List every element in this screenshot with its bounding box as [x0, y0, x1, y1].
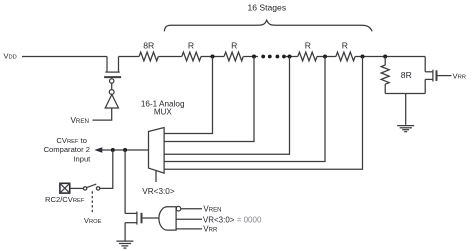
wire Q1 drain to 8R: [119, 56, 140, 58]
ground right: [397, 126, 414, 132]
node tap1: [211, 55, 215, 59]
svg-text:R: R: [342, 41, 348, 51]
wire mux input 5 from tap5: [164, 57, 362, 170]
wire mux input 4 from tap4: [164, 57, 325, 162]
dashed control line VROE: [91, 191, 93, 214]
node tap2: [252, 55, 256, 59]
resistor R2: [224, 52, 243, 61]
svg-text:RC2/CVREF: RC2/CVREF: [45, 195, 85, 204]
wire VDD to Q1 source: [22, 56, 107, 58]
resistor 8R ladder top: [139, 52, 158, 61]
inverter U2: [93, 90, 119, 121]
wire Q1 gate to inverter output: [111, 84, 113, 90]
svg-text:VROE: VROE: [84, 216, 102, 225]
mux 16-1 analog trapezoid: [149, 128, 165, 174]
label CVREF to Comparator 2 Input: [44, 136, 92, 163]
arrow CVREF output: [94, 147, 102, 152]
svg-text:R: R: [188, 41, 194, 51]
svg-text:CVREF to: CVREF to: [56, 136, 87, 145]
wire 8R to R1: [158, 56, 182, 58]
svg-text:VR<3:0> = 0000: VR<3:0> = 0000: [203, 216, 262, 225]
svg-text:Comparator 2: Comparator 2: [44, 145, 90, 154]
svg-text:8R: 8R: [143, 41, 154, 51]
wire R3 to R4: [317, 56, 336, 58]
node 8R branch: [383, 55, 387, 59]
transistor Q1 PMOS: [104, 57, 121, 84]
pin RC2/CVREF box: [60, 183, 70, 193]
brace 16 stages: [164, 20, 372, 31]
svg-text:VRR: VRR: [453, 71, 466, 80]
wire mux input 1 from tap1: [164, 57, 212, 134]
wire mux input 2 from tap2: [164, 57, 254, 142]
node tap3: [288, 55, 292, 59]
wire terminator to ground: [405, 94, 407, 125]
svg-text:MUX: MUX: [154, 107, 172, 116]
switch SW1: [83, 184, 99, 190]
node CVREF switch junction: [111, 148, 115, 152]
wire terminator bottom rail: [385, 93, 425, 95]
svg-text:VDD: VDD: [4, 51, 17, 60]
transistor Q2 pulldown: [125, 212, 159, 225]
resistor R1: [182, 52, 201, 61]
resistor R4: [336, 52, 355, 61]
svg-text:Input: Input: [73, 155, 91, 164]
node CVREF pulldown junction: [123, 148, 127, 152]
svg-text:VR<3:0>: VR<3:0>: [142, 187, 175, 196]
wire R4 to right corner: [355, 56, 425, 58]
svg-text:VREN: VREN: [203, 205, 221, 214]
wire AND input VRR: [176, 228, 202, 230]
wire corner down to Q3 drain: [424, 57, 426, 72]
transistor Q3 VRR switch: [425, 70, 451, 94]
svg-text:R: R: [305, 41, 311, 51]
svg-text:R: R: [231, 41, 237, 51]
wire mux output CVREF: [102, 149, 149, 151]
ground left: [116, 241, 133, 248]
wire Q2 source to ground: [124, 223, 126, 241]
node tap5: [361, 55, 365, 59]
node tap4: [323, 55, 327, 59]
wire mux input 3 from tap3: [164, 57, 289, 155]
resistor R3: [298, 52, 317, 61]
wire junction down to Q2 drain: [124, 150, 126, 213]
svg-text:8R: 8R: [401, 70, 412, 80]
wire R2 to tap2: [243, 56, 258, 58]
wire junction down to switch: [100, 150, 113, 188]
wire ellipsis to R3: [286, 56, 298, 58]
svg-text:VRR: VRR: [203, 225, 218, 234]
wire switch to pin box: [70, 187, 84, 189]
resistor 8R terminator vertical: [381, 57, 389, 94]
mux select stub: [155, 170, 157, 182]
gate U3 AND mirrored: [159, 206, 181, 230]
svg-text:16 Stages: 16 Stages: [247, 3, 286, 13]
wire R1 to tap1: [201, 56, 224, 58]
wire AND input VREN: [181, 208, 202, 210]
svg-text:VREN: VREN: [70, 116, 89, 125]
wire AND input VR combo: [176, 218, 202, 220]
ellipsis continuation dots: [261, 55, 286, 59]
